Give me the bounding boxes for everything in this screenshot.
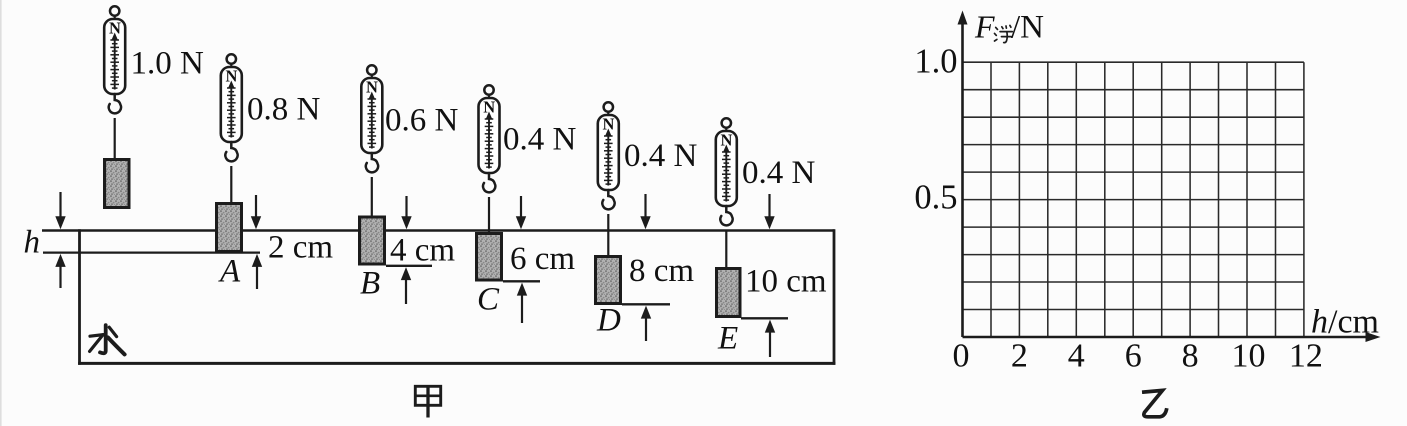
svg-text:0.6 N: 0.6 N [385, 103, 459, 139]
up arrow at h [55, 254, 65, 288]
svg-text:0: 0 [953, 338, 970, 375]
svg-text:4: 4 [1068, 338, 1085, 375]
label jia (figure 1) [415, 386, 440, 417]
block D [596, 257, 621, 304]
up arrow at A [252, 254, 262, 289]
svg-text:2 cm: 2 cm [268, 230, 333, 266]
up arrow at C [517, 283, 527, 323]
string S2-A [230, 166, 232, 204]
water surface line [42, 229, 835, 232]
tank left wall [78, 229, 81, 364]
svg-text:4 cm: 4 cm [390, 233, 455, 269]
subscript fu (buoyancy) [995, 25, 1013, 42]
6 cm depth line [503, 280, 540, 282]
string S5-D [607, 214, 609, 257]
svg-text:1.0 N: 1.0 N [131, 46, 205, 82]
down arrow at E [764, 194, 774, 229]
label shui (water) [90, 325, 125, 354]
svg-text:B: B [360, 266, 380, 302]
x axis [963, 332, 1381, 342]
spring scale S4 [479, 85, 500, 192]
svg-text:1.0: 1.0 [914, 43, 957, 81]
4 cm depth line [386, 265, 432, 267]
up arrow at E [765, 320, 775, 357]
8 cm depth line [622, 303, 670, 305]
svg-text:h: h [24, 225, 41, 261]
spring scale S2 [221, 54, 242, 161]
2 cm depth line (h) [43, 251, 260, 253]
graph grid [963, 62, 1304, 337]
spring scale S3 [361, 65, 382, 172]
down arrow at A [251, 195, 261, 229]
spring scale S6 [716, 118, 737, 225]
svg-text:C: C [477, 282, 500, 318]
block 1 (in air) [105, 160, 130, 208]
scan edge artifact [0, 0, 2, 426]
svg-text:8 cm: 8 cm [629, 253, 694, 289]
svg-text:6 cm: 6 cm [510, 241, 575, 277]
spring scale S1 [104, 6, 125, 113]
svg-text:10: 10 [1232, 338, 1266, 375]
block B [360, 217, 385, 264]
string S1-block1 [114, 118, 116, 159]
block A [217, 204, 242, 252]
svg-text:0.8 N: 0.8 N [247, 92, 321, 128]
svg-text:10 cm: 10 cm [745, 264, 827, 300]
tank bottom [78, 362, 835, 365]
svg-text:E: E [717, 321, 738, 357]
down arrow at B [401, 196, 411, 229]
svg-text:D: D [596, 303, 621, 339]
y axis [958, 11, 968, 338]
string S6-E [725, 230, 727, 269]
svg-text:0.4 N: 0.4 N [624, 138, 698, 174]
svg-text:0.4 N: 0.4 N [742, 155, 816, 191]
svg-text:F: F [974, 9, 995, 45]
svg-text:h/cm: h/cm [1311, 304, 1379, 341]
down arrow at h [55, 192, 65, 229]
down arrow at C [516, 196, 526, 229]
up arrow at B [401, 267, 411, 304]
svg-text:0.4 N: 0.4 N [503, 122, 577, 158]
svg-text:2: 2 [1011, 338, 1028, 375]
string S3-B [371, 177, 373, 217]
10 cm depth line [741, 317, 788, 319]
svg-text:0.5: 0.5 [914, 179, 957, 217]
svg-text:8: 8 [1182, 338, 1199, 375]
spring scale S5 [598, 102, 619, 209]
string S4-C [488, 197, 490, 234]
svg-text:6: 6 [1125, 338, 1142, 375]
up arrow at D [641, 306, 651, 341]
label yi (figure 2) [1142, 390, 1167, 416]
svg-text:/N: /N [1011, 10, 1044, 46]
svg-text:12: 12 [1289, 338, 1323, 375]
block E [717, 269, 741, 317]
svg-text:A: A [218, 254, 241, 290]
down arrow at D [640, 194, 650, 229]
tank right wall [833, 229, 836, 364]
block C [477, 234, 502, 281]
